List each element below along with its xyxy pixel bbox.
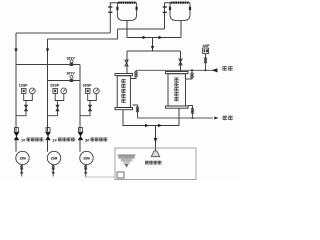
wire riser pump3 [79,65,81,132]
flow arrow right on collector [159,36,163,39]
wire center drop [152,38,154,52]
svg-text:3SM: 3SM [83,157,90,161]
wire riser pump2 [47,39,49,132]
valve pump3 suction [85,166,87,168]
wire condenser1 inlet [126,51,128,74]
outlet bell [151,151,159,157]
valve condenser1 inlet [125,60,128,66]
wire M2 header [48,29,118,39]
wire condenser2 inlet [180,51,182,72]
wire 26YV line [48,80,81,82]
wire condenser1 vent stub [131,70,136,78]
valve condenser1 vent [135,72,138,75]
check valve pump2 [46,128,50,133]
water level symbol [118,154,136,156]
flow arrow right on return [158,124,162,127]
cooling tower 1 [117,2,136,20]
wire cross link tower row [118,28,165,30]
wire faint suction header [85,176,115,178]
suction foot box [117,172,124,178]
valve instrument tap 3 [88,105,91,111]
valve condenser2 inlet [179,59,182,65]
svg-text:2SSP: 2SSP [50,84,59,88]
wire condenser1 drain stub [133,105,138,118]
wire pool drop [155,126,157,152]
wire condenser2 vent stub [186,70,192,79]
label blowdown [223,115,227,118]
wire collector header [127,37,181,39]
wire riser to tower 1 [110,3,117,33]
svg-text:1#: 1# [21,138,26,142]
flow arrow nitrogen in [212,68,218,72]
wire tower2 drain [180,20,182,37]
pump 1 [15,140,17,152]
flow arrow on riser1 [14,49,17,53]
flow arrow right on return [145,124,149,127]
svg-text:1SM: 1SM [19,157,26,161]
wire riser pump1 [15,33,17,132]
valve instrument tap 2 [56,105,59,111]
check valve pump3 [79,128,83,133]
wire distribution header [127,50,181,52]
wire tower1 drain [126,20,128,37]
wire ASP stub [205,54,207,71]
wire pump2 suction [52,165,54,177]
valve condenser2 drain [191,108,194,111]
svg-text:1SSP: 1SSP [19,84,28,88]
cooling tower 2 [170,2,190,20]
wire instrument bracket 2 [48,93,64,115]
svg-text:3#: 3# [85,138,90,142]
wire condenser2 outlet [178,108,180,125]
wire instrument bracket 3 [80,93,96,115]
svg-text:26YV: 26YV [67,71,76,75]
condenser C1 [115,74,133,76]
wire blowdown header [138,117,214,119]
check valve pump1 [15,128,19,133]
valve condenser1 drain [136,107,139,110]
wire pump1 suction [21,165,23,177]
wire M1 header [16,32,110,34]
wire vent header [136,69,217,71]
svg-text:2SM: 2SM [51,157,58,161]
flow arrow blowdown out [214,117,218,120]
pump 3 [79,140,81,152]
junction dots vent and blowdown [205,69,207,71]
wire condenser2 drain stub [188,106,193,119]
condenser C2 [166,72,189,74]
wire pump3 suction [85,165,87,177]
wire condenser1 outlet [123,110,179,126]
flow arrow on riser2 [46,49,49,53]
flow arrow down to pool [154,138,158,143]
flow arrow down on center drop [151,46,154,50]
flow arrow right on collector [143,36,147,39]
valve on tower2 riser [163,6,167,7]
valve condenser2 vent [191,73,194,76]
label nitrogen [223,65,227,68]
valve pump1 suction [21,166,23,168]
circulating water pool [115,148,196,180]
pump 2 [47,140,49,152]
wire instrument bracket 1 [16,93,32,115]
wire 16YV line [16,64,80,66]
wire riser to tower 2 [165,3,171,29]
valve on tower1 riser [108,6,112,7]
svg-text:2#: 2# [53,138,58,142]
valve pump2 suction [52,166,54,168]
valve ASP stub [204,58,207,61]
valve instrument tap 1 [24,105,27,111]
svg-text:3SSP: 3SSP [83,84,92,88]
label pool [145,160,149,163]
